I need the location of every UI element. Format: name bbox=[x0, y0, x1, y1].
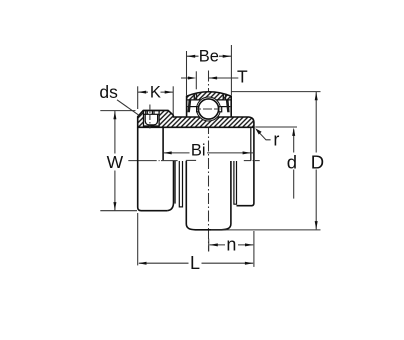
K extension lines bbox=[137, 86, 139, 109]
d dimension line bbox=[293, 129, 295, 198]
T extension line bbox=[195, 71, 197, 89]
D bottom extension line bbox=[211, 229, 321, 231]
ds leader bbox=[117, 100, 139, 116]
collar right chamfer line bbox=[174, 161, 176, 204]
svg-text:r: r bbox=[273, 129, 279, 149]
sleeve left face (Bi left) bbox=[162, 127, 164, 160]
outer ring spherical OD arc bbox=[187, 92, 232, 96]
seal lip right bbox=[226, 100, 230, 112]
r leader arrowhead bbox=[255, 128, 261, 134]
seal groove rect left bbox=[197, 107, 200, 112]
K arrows bbox=[138, 91, 146, 94]
T arrows bbox=[188, 77, 196, 80]
label D bbox=[310, 153, 325, 170]
n extension right bbox=[253, 231, 255, 267]
vertical centerline (bearing axis of symmetry) bbox=[208, 71, 210, 252]
D dimension line bbox=[315, 92, 317, 229]
W arrows bbox=[113, 111, 116, 119]
Bi dimension line bbox=[163, 152, 254, 154]
L extension left bbox=[137, 213, 139, 265]
svg-text:Bi: Bi bbox=[191, 142, 206, 160]
outer ring side faces bbox=[186, 96, 188, 117]
inner ring shoulders bbox=[188, 106, 197, 108]
horizontal centerline (shaft axis) bbox=[128, 159, 259, 161]
set screw bbox=[144, 111, 159, 125]
ball horizontal centerline bbox=[197, 108, 221, 110]
svg-text:K: K bbox=[150, 84, 161, 102]
D top extension line bbox=[231, 91, 320, 93]
W dimension line bbox=[114, 111, 116, 210]
d extension line (bore) bbox=[255, 126, 297, 128]
outer ring inner surface line bbox=[187, 99, 230, 101]
lower half silhouette: collar bbox=[138, 127, 254, 230]
label Be bbox=[199, 49, 220, 64]
sleeve right portion bbox=[237, 127, 254, 206]
svg-text:d: d bbox=[287, 151, 297, 172]
seal hanging bars left bbox=[194, 94, 195, 101]
svg-text:L: L bbox=[190, 253, 200, 273]
Be extension lines bbox=[186, 51, 188, 96]
seal lip left bbox=[188, 100, 192, 112]
d arrow bbox=[292, 128, 295, 136]
L arrows bbox=[138, 262, 146, 265]
K dimension line bbox=[138, 91, 173, 93]
W extension lines bbox=[100, 110, 135, 112]
label L bbox=[189, 255, 202, 272]
svg-text:T: T bbox=[237, 67, 248, 87]
Be dimension line bbox=[187, 55, 231, 57]
svg-text:W: W bbox=[107, 152, 124, 172]
seal step left bbox=[179, 161, 182, 207]
seal groove rect right bbox=[219, 107, 222, 112]
label K bbox=[148, 85, 161, 100]
D arrows bbox=[315, 92, 318, 100]
outer ring spherical top (hatched crescent) bbox=[187, 92, 232, 100]
svg-text:D: D bbox=[311, 151, 324, 172]
svg-text:n: n bbox=[226, 235, 236, 255]
seal hanging bars right bbox=[223, 94, 224, 101]
label Bi bbox=[190, 142, 208, 158]
label W bbox=[105, 154, 124, 171]
Bi right extension bbox=[250, 147, 252, 161]
raceway opening (white ring around ball) bbox=[197, 97, 221, 121]
Be arrows bbox=[187, 55, 195, 58]
Bi arrows bbox=[163, 151, 171, 154]
outer ring lower silhouette (sphere) bbox=[186, 161, 231, 230]
n arrows bbox=[210, 243, 218, 246]
arrowheads bbox=[113, 55, 317, 265]
n dimension line bbox=[210, 244, 254, 246]
sleeve right inner line bbox=[250, 127, 252, 160]
L dimension line bbox=[139, 262, 253, 264]
set screw centerline bbox=[149, 105, 151, 129]
collar left face bbox=[138, 127, 168, 210]
label d bbox=[286, 153, 299, 170]
svg-text:ds: ds bbox=[99, 82, 118, 102]
ball bbox=[198, 99, 218, 119]
set screw hole (white) in collar bbox=[144, 111, 160, 126]
n extension left (centerline ext) bbox=[208, 239, 210, 252]
seal step right bbox=[234, 161, 237, 204]
label n bbox=[225, 238, 238, 253]
r leader bbox=[259, 132, 271, 140]
collar bottom-right corner bbox=[167, 161, 173, 211]
T dimension line tails bbox=[181, 77, 190, 79]
inner ring sleeve + eccentric collar hatched section bbox=[138, 110, 254, 127]
svg-text:Be: Be bbox=[199, 48, 219, 66]
